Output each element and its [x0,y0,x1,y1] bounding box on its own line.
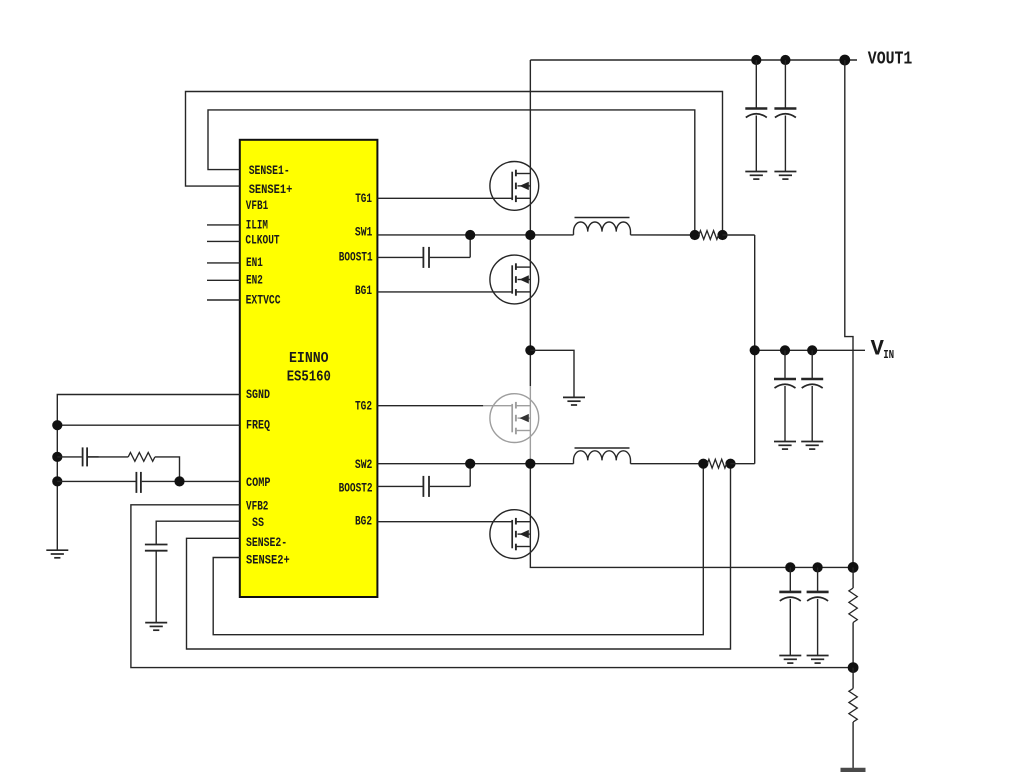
svg-text:TG1: TG1 [355,192,372,206]
svg-text:SENSE2+: SENSE2+ [246,554,290,568]
svg-text:EN2: EN2 [246,274,263,288]
svg-text:BOOST2: BOOST2 [339,482,373,496]
svg-text:ILIM: ILIM [246,218,268,232]
svg-text:VFB2: VFB2 [246,499,268,513]
svg-text:EXTVCC: EXTVCC [246,294,281,308]
svg-text:EINNO: EINNO [289,351,329,367]
svg-text:COMP: COMP [246,476,271,490]
svg-text:SGND: SGND [246,388,270,402]
svg-text:BG2: BG2 [355,515,372,529]
svg-text:VFB1: VFB1 [246,199,268,213]
svg-text:EN1: EN1 [246,256,263,270]
svg-text:SENSE2-: SENSE2- [246,536,287,550]
svg-text:BOOST1: BOOST1 [339,251,373,265]
svg-text:CLKOUT: CLKOUT [245,234,280,248]
svg-text:SENSE1-: SENSE1- [249,164,290,178]
svg-text:VOUT1: VOUT1 [868,49,913,70]
svg-text:SS: SS [252,516,264,530]
svg-text:FREQ: FREQ [246,419,270,433]
svg-text:IN: IN [883,349,894,362]
svg-text:TG2: TG2 [355,400,372,414]
svg-text:ES5160: ES5160 [287,369,331,385]
svg-text:BG1: BG1 [355,284,372,298]
svg-text:SENSE1+: SENSE1+ [249,183,293,197]
svg-text:SW2: SW2 [355,458,373,472]
svg-text:SW1: SW1 [355,226,373,240]
